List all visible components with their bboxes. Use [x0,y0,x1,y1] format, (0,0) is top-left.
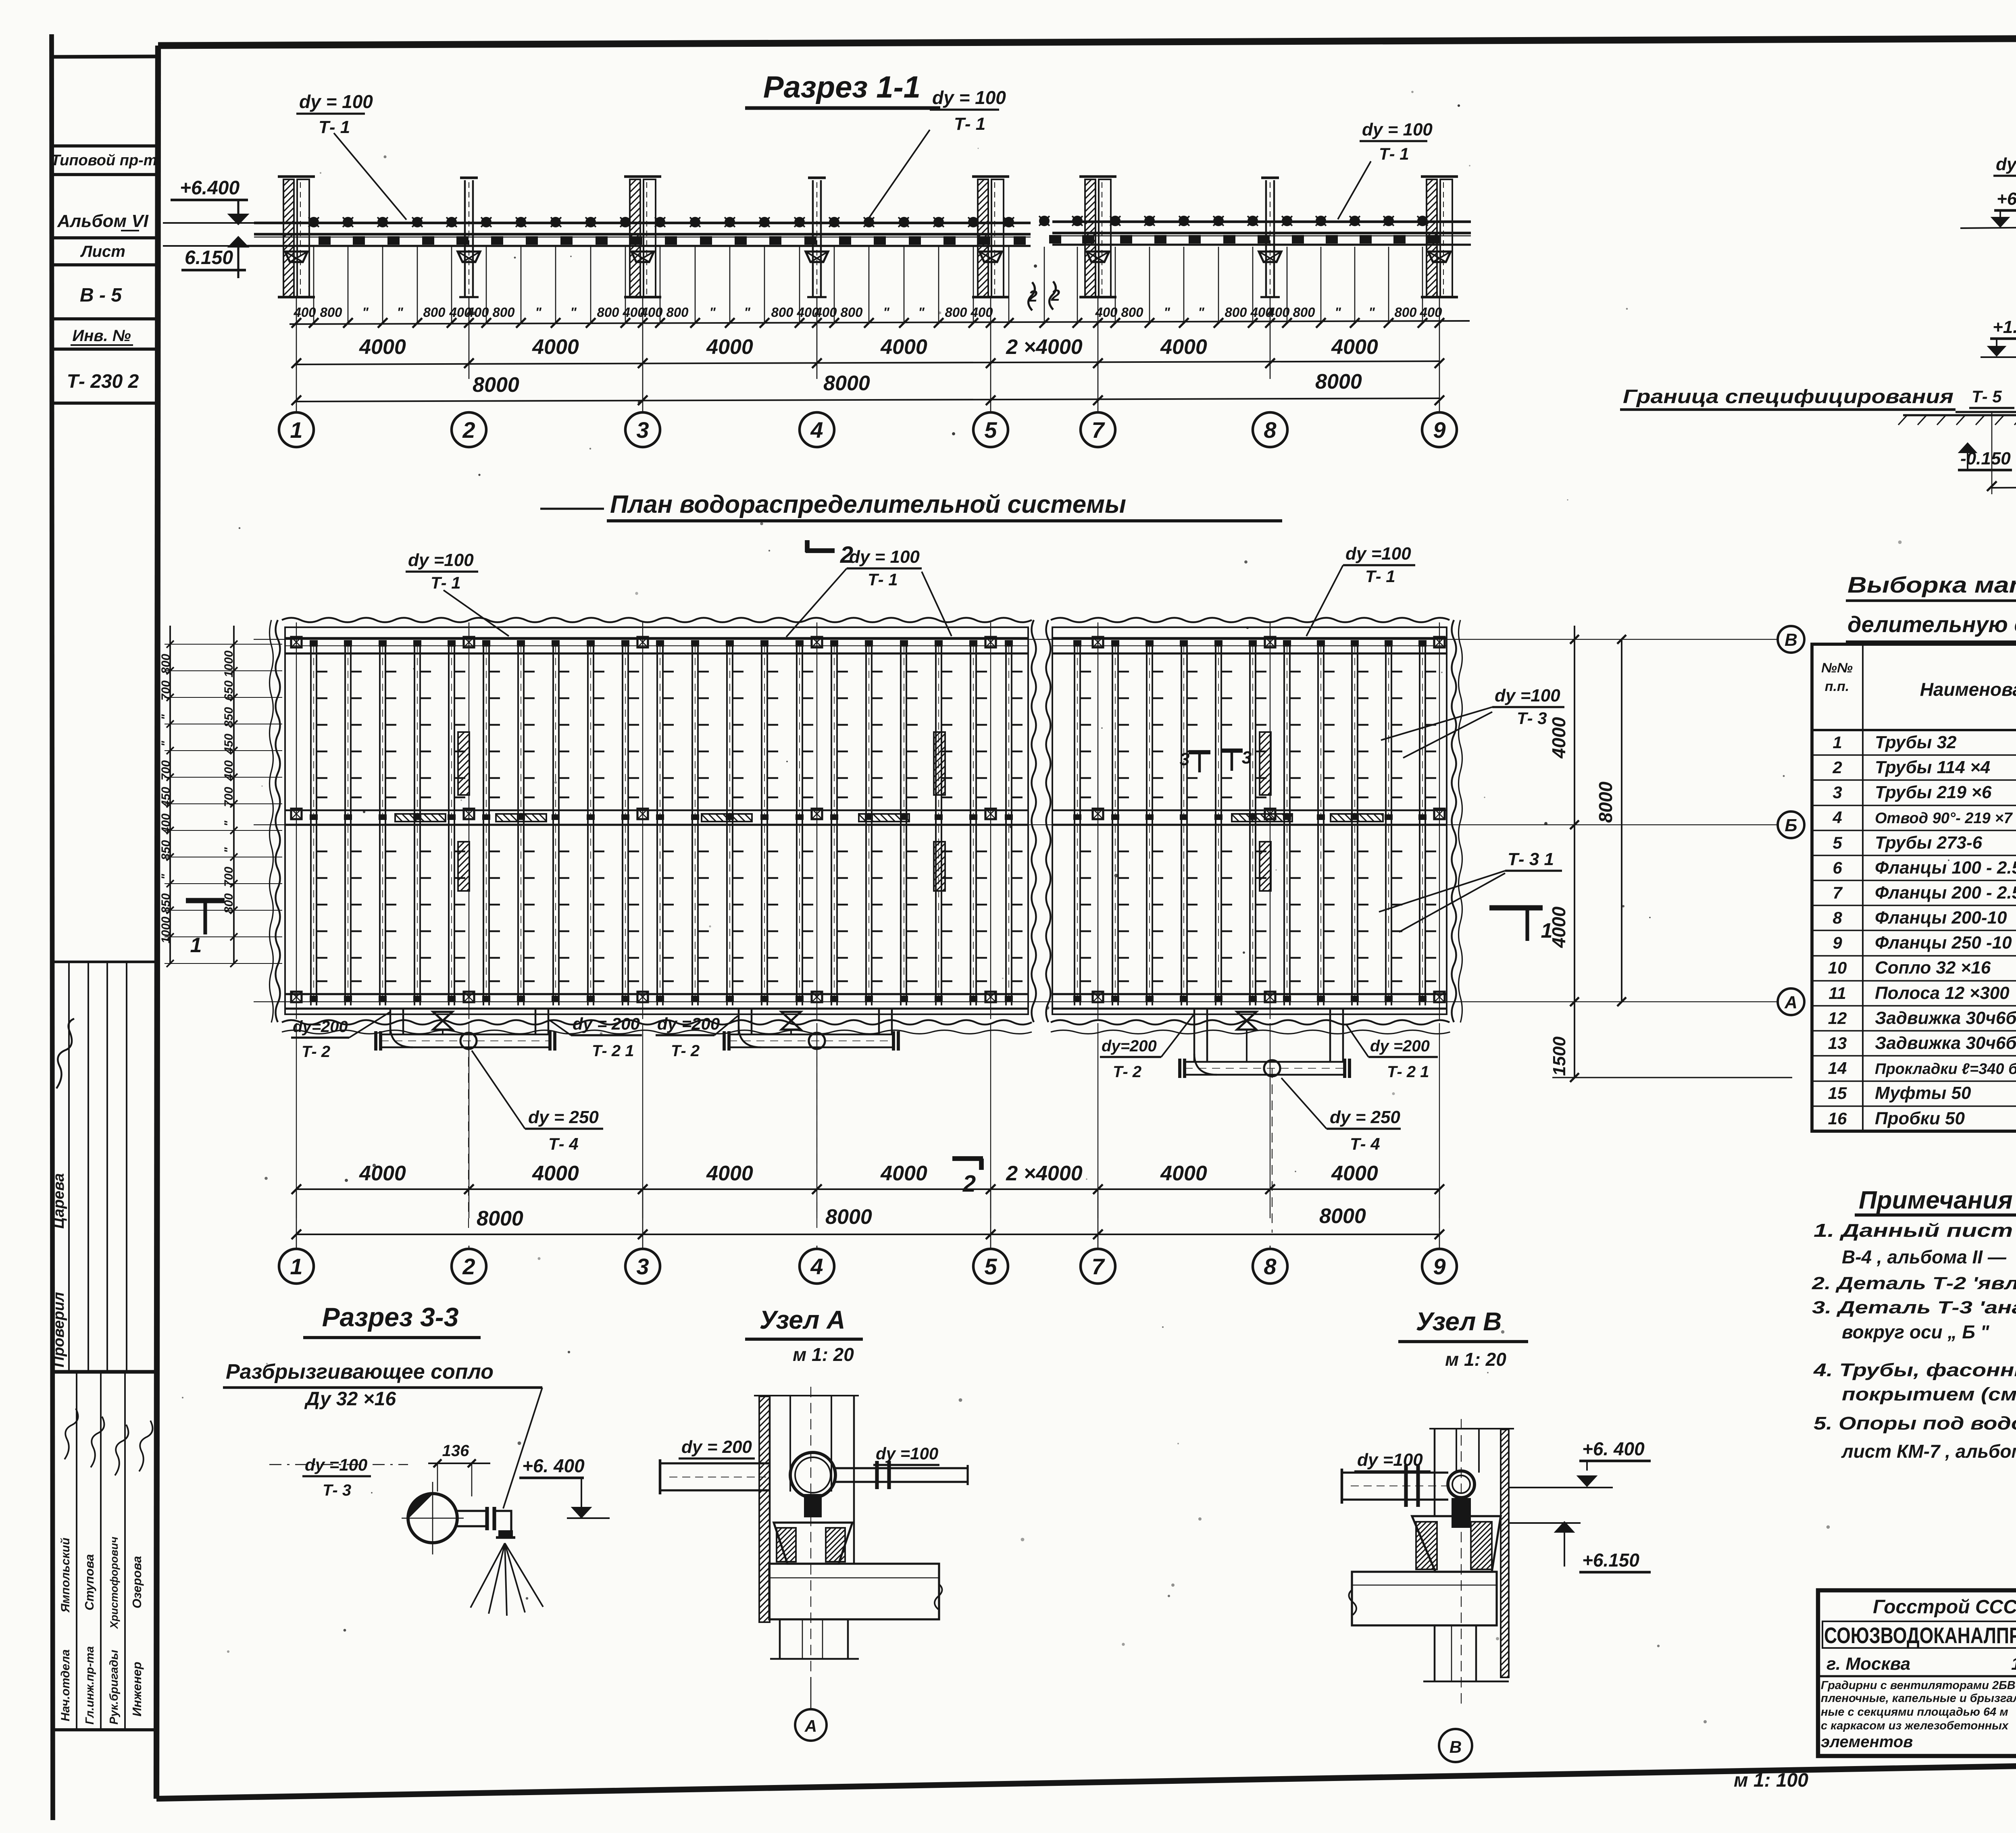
node A beam [769,1564,939,1619]
svg-text:800: 800 [945,305,967,320]
svg-text:dy = 100: dy = 100 [299,91,373,112]
svg-text:Т- 4: Т- 4 [1350,1134,1380,1153]
svg-text:8000: 8000 [825,1205,872,1229]
support bracket trapezoid [458,252,480,262]
sidebar box lines [52,144,158,148]
table row lines [1812,754,2016,755]
svg-text:+6.400: +6.400 [180,177,240,199]
svg-text:2 ×4000: 2 ×4000 [1006,1162,1082,1185]
svg-text:850: 850 [159,893,173,913]
svg-text:4000: 4000 [1331,335,1378,359]
svg-text:г. Москва: г. Москва [1826,1654,1910,1674]
svg-text:3. Деталь Т-3 'аналогична дета: 3. Деталь Т-3 'аналогична детали Т-3, но… [1812,1298,2016,1317]
svg-text:4000: 4000 [706,1162,753,1185]
svg-text:Типовой пр-т: Типовой пр-т [51,152,157,169]
node B pipe cross circle [1448,1471,1475,1498]
svg-text:4000: 4000 [880,335,927,359]
svg-text:2: 2 [462,417,475,443]
node A pipe dy=100 to right [835,1467,968,1469]
svg-text:450: 450 [159,787,173,807]
svg-text:dy = 200: dy = 200 [1996,154,2016,174]
svg-text:+1. 200: +1. 200 [1993,317,2016,337]
svg-text:700: 700 [222,787,235,807]
svg-text:700: 700 [222,867,235,887]
support bracket trapezoid [806,252,828,262]
svg-text:элементов: элементов [1821,1733,1913,1751]
plan bottom dimension chain 4000 [296,1188,1439,1190]
svg-text:dy =200: dy =200 [657,1014,720,1033]
svg-text:dy = 200: dy = 200 [573,1014,640,1033]
svg-text:Фланцы 200-10: Фланцы 200-10 [1875,908,2007,928]
svg-text:Градирни с вентиляторами 2БВ-: Градирни с вентиляторами 2БВ- [1821,1679,2016,1692]
svg-text:800: 800 [159,654,173,674]
svg-text:dy =100: dy =100 [408,550,474,570]
support bracket trapezoid [1087,252,1109,262]
svg-text:400: 400 [1419,305,1442,320]
svg-text:Ямпольский: Ямпольский [59,1538,72,1613]
grid bubbles section 1-1 [279,412,314,447]
svg-text:Граница специфицирования: Граница специфицирования [1623,386,1954,408]
support bracket trapezoid [1428,252,1451,262]
svg-text:Т- 1: Т- 1 [431,573,461,592]
dimension chain 400-800 (section 1-1) [289,321,1470,324]
svg-text:Т- 2: Т- 2 [302,1043,330,1061]
svg-text:+6. 400: +6. 400 [522,1455,585,1476]
svg-text:3: 3 [636,417,649,443]
svg-text:Трубы 32: Трубы 32 [1875,732,1957,752]
svg-text:В-4 , альбома II —: В-4 , альбома II — [1842,1246,2007,1267]
svg-text:": " [362,305,369,320]
node A support trapezoid [774,1523,852,1564]
svg-text:делительную систему 4х секцион: делительную систему 4х секционной градир… [1847,612,2016,637]
riser pipes T-1 with nozzle ticks (plan) [310,640,1436,1005]
svg-text:Т- 1: Т- 1 [1365,567,1395,586]
break marks in section 1-1 [1028,282,1035,310]
svg-text:4: 4 [810,1254,823,1279]
node A bubble [810,1677,812,1709]
svg-text:2: 2 [1028,287,1037,305]
svg-text:4: 4 [810,417,823,443]
svg-text:15: 15 [1828,1084,1847,1103]
svg-text:Озерова: Озерова [130,1556,144,1608]
svg-text:650: 650 [222,680,235,701]
svg-text:4000: 4000 [880,1162,927,1185]
svg-text:Прокладки ℓ=340 б=3: Прокладки ℓ=340 б=3 [1875,1061,2016,1078]
svg-text:400: 400 [970,305,993,320]
svg-text:": " [883,305,889,320]
pipe T-3 cross-section circle (section 3-3) [408,1494,457,1543]
svg-text:№№: №№ [1821,660,1853,676]
svg-text:покрытием (см. пояснительную з: покрытием (см. пояснительную записку, ал… [1842,1384,2016,1404]
svg-text:800: 800 [666,305,689,320]
svg-text:14: 14 [1828,1059,1847,1078]
svg-text:Т- 2 1: Т- 2 1 [592,1042,634,1060]
dimension droppers (section 1-1) [296,247,1439,323]
svg-text:7: 7 [1091,1254,1105,1279]
node B centerline [1461,1419,1462,1709]
svg-text:Трубы 219 ×6: Трубы 219 ×6 [1875,782,1992,802]
svg-text:Задвижка 30ч6бр: Задвижка 30ч6бр [1875,1008,2016,1028]
svg-text:Т- 1: Т- 1 [954,114,985,134]
node A pipe dy=200 from left [660,1462,769,1464]
plan wavy outline section B [1051,618,1450,622]
svg-text:8000: 8000 [823,372,870,395]
svg-text:Т- 2: Т- 2 [671,1042,700,1060]
svg-text:2. Деталь Т-2 'является зеркал: 2. Деталь Т-2 'является зеркальным изобр… [1812,1273,2016,1293]
right dimension chains of plan [1574,626,1575,1078]
svg-text:1000: 1000 [159,916,173,943]
svg-text:1000: 1000 [222,650,235,677]
outlet assembly A1 (pipes T-2/T-21/T-4) [389,1009,392,1034]
svg-text:5: 5 [984,1254,997,1279]
svg-text:Т- 230 2: Т- 230 2 [67,371,139,392]
section marker 2 bottom (plan) [952,1156,983,1161]
svg-text:4000: 4000 [1331,1162,1378,1185]
plan grid axis lines [296,622,297,1019]
svg-text:Примечания :: Примечания : [1859,1186,2016,1214]
svg-text:лист КМ-7 , альбом II .: лист КМ-7 , альбом II . [1841,1441,2016,1462]
svg-text:dy =100: dy =100 [876,1444,938,1463]
svg-text:": " [1368,305,1375,320]
svg-text:Выборка материалов и оборудова: Выборка материалов и оборудования на вод… [1847,572,2016,597]
svg-text:Инженер: Инженер [130,1662,144,1716]
svg-text:Фланцы 200 - 2.5: Фланцы 200 - 2.5 [1875,883,2016,903]
node B bubble [1439,1729,1472,1762]
svg-text:800: 800 [840,305,863,320]
node B support trapezoid [1412,1516,1501,1572]
section marker T1 left (plan) [186,898,225,903]
svg-text:700: 700 [159,760,173,780]
svg-text:dy=200: dy=200 [293,1018,348,1036]
svg-text:10: 10 [1828,958,1847,977]
svg-text:800: 800 [1293,305,1315,320]
svg-text:400: 400 [466,305,489,320]
svg-text:8: 8 [1264,1254,1277,1279]
node A anchor block [804,1494,822,1517]
svg-text:800: 800 [1225,305,1247,320]
drawing frame left border [156,46,158,1799]
svg-text:Трубы 114 ×4: Трубы 114 ×4 [1875,757,1990,777]
svg-text:5: 5 [984,417,997,443]
svg-text:3: 3 [1180,749,1189,769]
svg-text:4000: 4000 [532,335,579,359]
sidebar signature squiggle [56,1019,74,1088]
svg-text:800: 800 [320,305,342,320]
svg-text:2: 2 [1051,287,1060,304]
svg-text:1: 1 [290,1254,302,1279]
svg-text:Узел В: Узел В [1416,1307,1502,1336]
svg-text:5: 5 [1833,833,1842,852]
svg-text:п.п.: п.п. [1825,679,1849,694]
svg-text:Разрез 1-1: Разрез 1-1 [763,70,921,104]
plan title: План водораспределительной системы [540,508,604,510]
svg-text:dy =200: dy =200 [1370,1037,1430,1055]
svg-text:В: В [1785,630,1797,650]
table outer border [1812,644,2016,1131]
section marker 2 top (plan) [805,540,810,552]
svg-text:Т- 1: Т- 1 [1379,144,1409,163]
plan bottom grid droppers [296,1023,297,1218]
svg-text:8000: 8000 [1595,781,1616,823]
svg-text:Пробки 50: Пробки 50 [1875,1109,1965,1128]
svg-text:850: 850 [159,840,173,860]
svg-text:А: А [1784,992,1797,1012]
svg-text:4000: 4000 [706,335,753,359]
svg-text:8: 8 [1833,908,1842,927]
svg-text:Т- 4: Т- 4 [548,1134,579,1153]
node B anchor block [1452,1498,1471,1528]
svg-text:Проверил: Проверил [50,1292,67,1367]
title block outer box [1818,1590,2016,1756]
svg-text:Рук.бригады: Рук.бригады [108,1650,121,1725]
secondary shelf line [254,237,1031,238]
svg-text:400: 400 [814,305,837,320]
table header lines [1812,729,2016,731]
svg-text:": " [397,305,403,320]
dimension chain 8000 (section 1-1) [296,398,1439,402]
svg-text:Фланцы 100 - 2.5: Фланцы 100 - 2.5 [1875,858,2016,878]
svg-text:Б: Б [1785,816,1797,835]
svg-text:Разбрызгивающее сопло: Разбрызгивающее сопло [226,1360,494,1384]
dimension chain 4000 (section 1-1) [296,361,1439,364]
svg-text:2: 2 [1832,758,1842,777]
svg-text:400: 400 [222,760,235,781]
svg-text:м 1: 20: м 1: 20 [793,1344,854,1365]
plan wavy outline section A [282,618,1032,622]
support bracket trapezoid [979,252,1002,262]
support bracket trapezoid [285,252,308,262]
label 3T T3 inside plan [1189,750,1210,754]
svg-text:м 1: 20: м 1: 20 [1445,1349,1506,1370]
svg-text:В - 5: В - 5 [80,285,122,306]
svg-text:Разрез 3-3: Разрез 3-3 [322,1302,459,1332]
svg-text:Полоса 12 ×300: Полоса 12 ×300 [1875,983,2010,1003]
svg-text:1. Данный пист смотрите совмес: 1. Данный пист смотрите совместно с пист… [1814,1220,2016,1241]
svg-text:800: 800 [597,305,619,320]
svg-text:800: 800 [771,305,793,320]
svg-text:": " [222,847,235,853]
support bracket trapezoid [1259,252,1281,262]
svg-text:Задвижка 30ч6бр: Задвижка 30ч6бр [1875,1033,2016,1053]
svg-text:800: 800 [492,305,515,320]
svg-text:": " [222,820,235,826]
svg-text:7: 7 [1091,417,1105,443]
svg-text:вокруг оси „ Б ": вокруг оси „ Б " [1842,1321,1990,1342]
svg-text:9: 9 [1833,933,1842,952]
left dimension chains of plan [169,626,171,964]
plan collector band middle (Б axis) [285,809,1028,811]
svg-text:Альбом VI: Альбом VI [57,211,149,231]
plan bottom dimension chain 8000 [296,1234,1439,1235]
paper left edge line [52,34,53,1820]
svg-text:Лист: Лист [80,243,125,260]
title block divider under Москва [1818,1675,2016,1677]
svg-text:19 74 г.: 19 74 г. [2011,1654,2016,1674]
node B lower column [1434,1625,1436,1681]
svg-text:4000: 4000 [532,1162,579,1185]
svg-text:": " [159,714,173,720]
svg-text:5. Опоры под водораспределител: 5. Опоры под водораспределительную систе… [1814,1413,2016,1434]
outlet assembly A2 [738,1009,740,1034]
svg-text:4000: 4000 [1160,335,1207,359]
svg-text:Инв. №: Инв. № [72,327,131,345]
narrow post at grid 4 [812,180,814,297]
svg-text:400: 400 [293,305,316,320]
svg-text:м 1: 100: м 1: 100 [1734,1770,1808,1791]
svg-text:400: 400 [1267,305,1290,320]
svg-text:3: 3 [636,1254,649,1279]
plan collector band bottom (А axis) [285,993,1028,995]
outlet assembly B [1193,1009,1195,1062]
svg-text:8000: 8000 [473,373,519,397]
svg-text:16: 16 [1828,1109,1847,1128]
node B elevation +6.150 [1556,1522,1573,1532]
svg-text:dy=200: dy=200 [1102,1037,1157,1055]
svg-text:": " [570,305,577,320]
svg-text:1: 1 [290,417,302,443]
svg-text:dy = 100: dy = 100 [849,547,920,567]
plan row axis lines В Б А [254,639,1778,640]
svg-text:": " [535,305,541,320]
svg-text:9: 9 [1433,1254,1445,1279]
svg-text:800: 800 [1394,305,1417,320]
svg-text:3: 3 [1833,783,1842,802]
svg-text:Наименование: Наименование [1920,679,2016,700]
svg-text:136: 136 [442,1442,469,1460]
svg-text:Христофорович: Христофорович [108,1537,120,1629]
spray lines (section 3-3) [471,1543,505,1608]
svg-text:850: 850 [222,707,235,727]
support bracket trapezoid [631,252,654,262]
svg-text:8000: 8000 [1319,1205,1366,1228]
svg-text:Т- 3: Т- 3 [1517,709,1547,728]
svg-text:Ду 32 ×16: Ду 32 ×16 [304,1388,396,1410]
svg-text:400: 400 [1095,305,1118,320]
svg-text:9: 9 [1433,417,1445,443]
node A lower column [779,1619,781,1659]
svg-text:Трубы 273-6: Трубы 273-6 [1875,833,1983,853]
svg-text:Отвод 90°- 219 ×7: Отвод 90°- 219 ×7 [1875,810,2013,827]
svg-text:dy =100: dy =100 [1495,686,1560,705]
svg-text:": " [159,741,173,747]
svg-text:Муфты 50: Муфты 50 [1875,1083,1971,1103]
svg-text:4. Трубы, фасонные части окраш: 4. Трубы, фасонные части окрашиваются ан… [1813,1360,2016,1380]
svg-text:dy = 100: dy = 100 [1362,120,1433,139]
svg-text:11: 11 [1829,984,1846,1003]
svg-text:Т- 3 1: Т- 3 1 [1508,849,1554,869]
svg-text:+6. 400: +6. 400 [1582,1438,1645,1459]
svg-text:Сопло 32 ×16: Сопло 32 ×16 [1875,958,1991,978]
svg-text:8000: 8000 [1315,370,1362,393]
svg-text:": " [1198,305,1204,320]
svg-text:800: 800 [1121,305,1143,320]
svg-text:800: 800 [423,305,446,320]
svg-text:8000: 8000 [477,1207,523,1230]
nozzle elbow (section 3-3) [457,1510,487,1512]
svg-text:Т- 2: Т- 2 [1113,1063,1141,1081]
pipe T-1 dy=100 main distribution pipe (section 1-1) [254,222,1031,225]
node B beam [1352,1572,1497,1625]
svg-text:Нач.отдела: Нач.отдела [59,1649,72,1721]
svg-text:Т- 1: Т- 1 [868,570,898,589]
svg-text:": " [744,305,750,320]
svg-text:Гл.инж.пр-та: Гл.инж.пр-та [83,1646,96,1725]
svg-text:400: 400 [159,814,173,834]
sidebar upper signature block [52,961,158,963]
spray nozzles on pipe T-1 [308,216,1439,245]
svg-text:+6.400: +6.400 [1997,189,2016,209]
svg-text:dy = 200: dy = 200 [681,1437,752,1457]
svg-text:+6.150: +6.150 [1582,1550,1639,1571]
sidebar top cap line [52,56,158,57]
svg-text:А: А [804,1716,817,1735]
svg-text:": " [159,874,173,880]
svg-text:4000: 4000 [1548,717,1569,759]
sidebar signatures squiggles [65,1409,78,1459]
svg-text:2: 2 [962,1171,976,1197]
plan inner border rect section B [1052,627,1447,1014]
plan second wavy line section B [1459,620,1462,1022]
svg-text:Т- 5: Т- 5 [1972,387,2002,406]
plan grid bubbles 1-9 [296,1246,297,1249]
plan collector band top (В axis) [285,637,1028,639]
svg-text:": " [1164,305,1170,320]
svg-text:4000: 4000 [359,335,406,359]
svg-text:13: 13 [1828,1034,1847,1053]
droppers to bubbles (section 2-2) [1991,412,1993,494]
sidebar lower signature block [52,1728,158,1731]
svg-text:СОЮЗВОДОКАНАЛПРОЕКТ: СОЮЗВОДОКАНАЛПРОЕКТ [1824,1623,2016,1648]
svg-text:dy = 100: dy = 100 [932,87,1006,108]
svg-text:12: 12 [1828,1009,1847,1028]
svg-text:4000: 4000 [359,1162,406,1185]
svg-text:1: 1 [1833,733,1842,752]
narrow post at grid 2 [464,180,466,297]
svg-text:Фланцы 250 -10: Фланцы 250 -10 [1875,933,2012,953]
table column lines [1862,644,1864,1131]
svg-text:Узел А: Узел А [760,1305,846,1334]
narrow post at grid 8 [1265,180,1267,297]
svg-text:2: 2 [462,1254,475,1279]
svg-text:8: 8 [1264,417,1277,443]
svg-text:4: 4 [1832,808,1842,827]
svg-text:6.150: 6.150 [185,247,233,268]
elevation mark 6.150 (section 1-1) [229,237,248,247]
svg-text:6: 6 [1833,858,1842,877]
svg-text:dy = 250: dy = 250 [1330,1107,1400,1127]
svg-text:4000: 4000 [1548,906,1569,948]
svg-text:1500: 1500 [1549,1036,1569,1076]
drawing frame bottom border [156,1756,2016,1799]
svg-text:800: 800 [222,893,235,913]
svg-text:dy = 250: dy = 250 [528,1107,599,1127]
svg-text:Т- 3: Т- 3 [323,1481,351,1499]
svg-text:400: 400 [640,305,663,320]
svg-text:7: 7 [1833,883,1843,902]
node A centerline [810,1387,811,1677]
svg-text:ные с секциями площадью 64 м: ные с секциями площадью 64 м [1821,1706,2008,1719]
plan second wavy line section A [270,620,273,1022]
svg-text:В: В [1450,1737,1462,1756]
svg-text:3: 3 [1242,748,1252,768]
svg-text:Т- 2 1: Т- 2 1 [1387,1063,1429,1081]
bottom dimension chains (section 2-2) [1992,485,2016,488]
svg-text:2 ×4000: 2 ×4000 [1006,335,1082,359]
flange squares at grid/band intersections [291,637,302,647]
svg-text:Царева: Царева [50,1173,67,1229]
svg-text:": " [1335,305,1341,320]
svg-text:с каркасом из железобетонных: с каркасом из железобетонных [1821,1719,2009,1732]
